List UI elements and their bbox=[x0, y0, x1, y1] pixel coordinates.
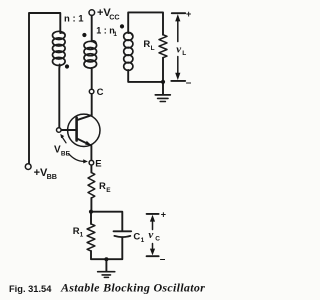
svg-text:BB: BB bbox=[47, 172, 57, 181]
svg-text:+: + bbox=[161, 210, 166, 220]
svg-text:1: 1 bbox=[113, 31, 117, 38]
svg-text:Fig. 31.54: Fig. 31.54 bbox=[9, 284, 52, 294]
svg-text:–: – bbox=[160, 254, 166, 265]
svg-text:C: C bbox=[155, 235, 160, 242]
svg-text:Astable Blocking Oscillator: Astable Blocking Oscillator bbox=[60, 281, 205, 295]
svg-text:E: E bbox=[95, 158, 101, 169]
svg-text:1: 1 bbox=[80, 232, 84, 239]
svg-text:–: – bbox=[186, 78, 192, 89]
svg-text:R: R bbox=[143, 39, 150, 50]
svg-text:E: E bbox=[106, 187, 111, 194]
svg-text:C: C bbox=[133, 231, 140, 242]
svg-text:BE: BE bbox=[61, 150, 71, 157]
svg-text:L: L bbox=[151, 45, 155, 52]
svg-text:v: v bbox=[148, 229, 153, 241]
svg-text:+: + bbox=[186, 9, 191, 19]
svg-text:1 : n: 1 : n bbox=[96, 26, 115, 36]
svg-text:C: C bbox=[97, 87, 104, 98]
svg-text:L: L bbox=[182, 50, 186, 57]
svg-text:R: R bbox=[99, 181, 106, 192]
svg-text:CC: CC bbox=[109, 12, 119, 21]
svg-text:n : 1: n : 1 bbox=[64, 13, 84, 24]
svg-text:1: 1 bbox=[141, 237, 145, 244]
svg-text:v: v bbox=[176, 43, 181, 55]
